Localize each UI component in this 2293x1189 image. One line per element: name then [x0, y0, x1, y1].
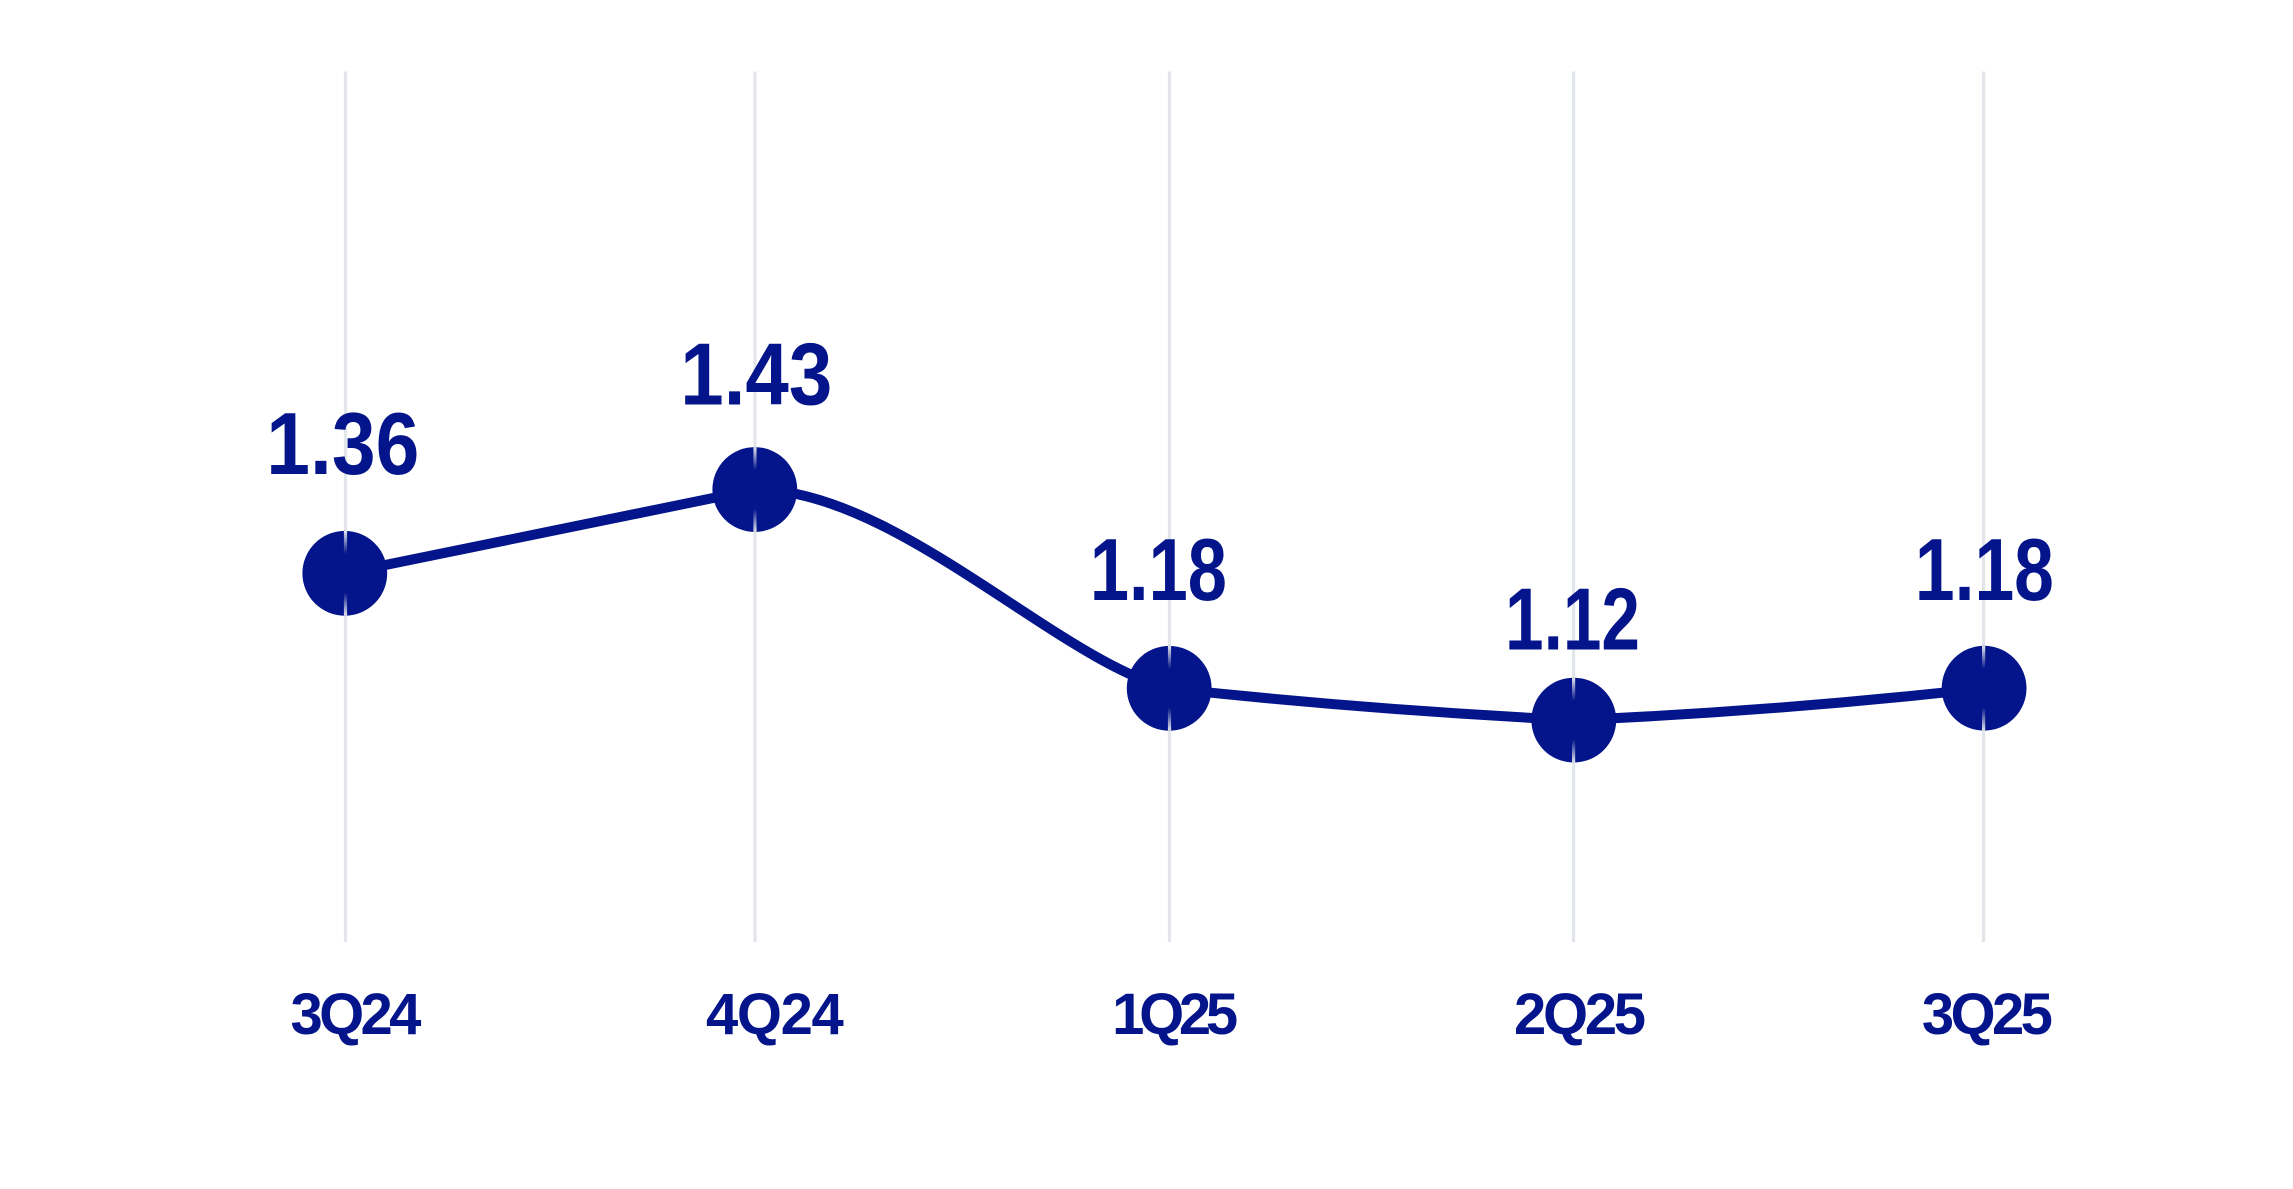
point 1Q25: [1127, 646, 1212, 731]
svg-text:1.36: 1.36: [266, 394, 419, 493]
gridline overlay on point 3Q24: [344, 531, 347, 554]
point 4Q24: [712, 447, 797, 532]
svg-text:3Q24: 3Q24: [291, 982, 422, 1047]
svg-text:1.18: 1.18: [1090, 520, 1227, 619]
svg-text:3Q25: 3Q25: [1922, 982, 2052, 1047]
gridline overlay on point 1Q25: [1168, 646, 1171, 669]
gridline overlay on point 4Q24: [753, 447, 756, 470]
gridline overlay on point 3Q25: [1982, 646, 1985, 669]
svg-text:1.12: 1.12: [1505, 569, 1640, 668]
gridline 1Q25: [1168, 72, 1171, 943]
gridline 3Q25: [1982, 72, 1985, 943]
svg-text:1.18: 1.18: [1915, 520, 2054, 619]
gridline 3Q24: [344, 72, 347, 943]
gridline overlay on point 2Q25: [1572, 678, 1575, 701]
svg-text:1.43: 1.43: [680, 325, 832, 424]
svg-text:4Q24: 4Q24: [706, 982, 843, 1047]
series line: [345, 489, 1984, 720]
gridline 4Q24: [753, 72, 756, 943]
svg-text:2Q25: 2Q25: [1514, 982, 1645, 1047]
point 3Q24: [302, 531, 387, 616]
gridline 2Q25: [1572, 72, 1575, 943]
point 2Q25: [1531, 678, 1616, 763]
point 3Q25: [1942, 646, 2027, 731]
svg-text:1Q25: 1Q25: [1112, 982, 1237, 1047]
